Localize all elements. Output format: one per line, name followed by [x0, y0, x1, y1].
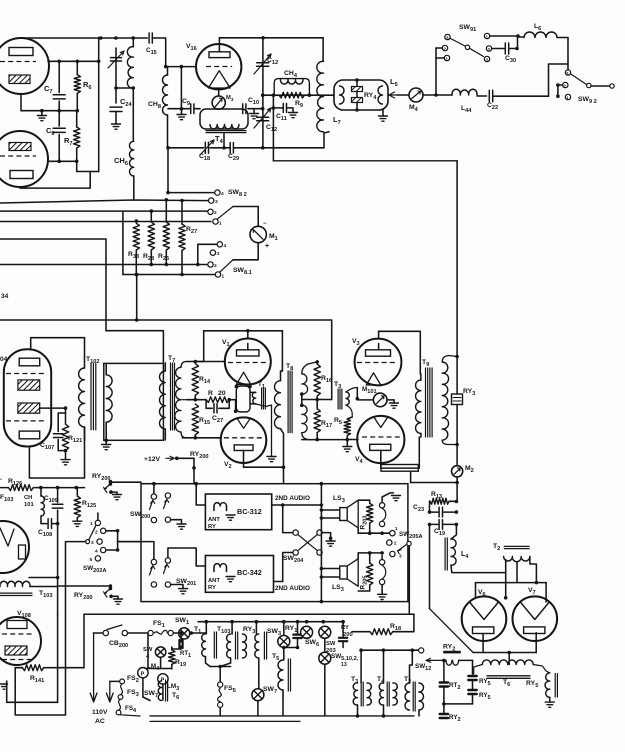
switch SW91 bank1	[445, 34, 450, 39]
switch arm SW91	[451, 39, 467, 47]
resistor R28	[150, 209, 154, 213]
switch SW201	[151, 559, 156, 564]
fuse FS1	[148, 630, 153, 635]
wire	[116, 87, 133, 89]
wire	[321, 576, 339, 578]
wire cathode bar	[473, 652, 536, 654]
coil T6	[482, 660, 533, 665]
fuse FS4	[119, 699, 121, 710]
wire	[381, 437, 420, 468]
capacitor C7	[58, 61, 60, 92]
wire grid V4	[347, 439, 358, 441]
transformer T8 secondary top	[302, 362, 317, 374]
wire	[110, 481, 141, 483]
wire	[549, 38, 569, 97]
switch SW202A	[95, 520, 100, 525]
wire	[198, 244, 217, 264]
ground	[1, 683, 8, 685]
ground	[181, 109, 183, 115]
resistor R18	[352, 631, 370, 633]
capacitor C6	[58, 111, 60, 126]
meter M2	[452, 466, 463, 477]
wire	[147, 633, 149, 669]
wire	[475, 583, 477, 598]
svg-text:1: 1	[219, 221, 222, 227]
node	[227, 398, 231, 402]
wire	[282, 697, 284, 716]
inductor L7	[317, 61, 324, 131]
node	[356, 714, 360, 718]
node	[455, 481, 459, 485]
vibrator RY5a	[468, 675, 476, 677]
lamp LM4	[138, 668, 148, 678]
ground	[378, 593, 387, 595]
node	[434, 93, 438, 97]
core T6	[487, 675, 530, 677]
wire	[180, 67, 182, 109]
wire	[164, 362, 166, 364]
capacitor C11	[273, 107, 283, 109]
wire	[219, 708, 221, 716]
wire RY2 row	[426, 659, 444, 661]
node	[135, 318, 139, 322]
wire	[150, 720, 300, 722]
lamp SW1	[179, 628, 190, 639]
diag wire	[429, 609, 473, 653]
ground	[73, 520, 82, 522]
transformer T9 left	[420, 374, 422, 380]
wire	[118, 542, 154, 560]
wire	[117, 531, 119, 550]
core T2top	[504, 545, 529, 547]
ground	[177, 523, 186, 525]
wire	[21, 37, 147, 39]
node	[97, 60, 101, 64]
node	[356, 397, 360, 401]
node	[39, 486, 43, 490]
node	[56, 522, 60, 526]
arrow 110V b	[109, 681, 111, 700]
wire	[324, 664, 326, 716]
node	[281, 503, 285, 507]
transformer T103 primary	[0, 581, 30, 586]
svg-text:2ND AUDIO: 2ND AUDIO	[275, 495, 310, 502]
wire	[456, 405, 458, 466]
wire	[321, 568, 339, 570]
svg-text:+12V: +12V	[144, 456, 161, 463]
svg-text:R: R	[208, 390, 213, 397]
wire	[301, 394, 303, 405]
switch SW205A	[390, 531, 395, 536]
wire	[143, 668, 172, 670]
wire	[378, 331, 380, 338]
wire	[111, 492, 117, 494]
wire	[423, 94, 452, 96]
coil RY5R	[545, 673, 550, 698]
node	[194, 398, 198, 402]
wire grid	[40, 407, 66, 409]
wire	[57, 615, 59, 703]
switch SW200	[151, 494, 156, 499]
tube V6	[462, 596, 507, 641]
wire	[357, 553, 359, 559]
capacitor C18	[204, 142, 206, 153]
node	[300, 392, 304, 396]
tube V2	[221, 417, 267, 463]
resistor R33	[135, 219, 139, 223]
wire	[283, 505, 293, 533]
node	[166, 191, 170, 195]
wire	[162, 684, 164, 700]
tube V3	[355, 339, 402, 386]
wire	[383, 650, 385, 683]
resistor R9	[279, 92, 305, 98]
wire RY3 vertical	[456, 161, 458, 394]
wire	[187, 361, 196, 363]
ground	[382, 110, 384, 116]
wire	[219, 667, 221, 683]
transformer T102 secondary	[105, 363, 107, 374]
switch SW91 bank2	[484, 33, 489, 38]
box T1	[236, 386, 250, 412]
node	[455, 500, 459, 504]
terminal box	[381, 465, 418, 472]
wire	[493, 95, 549, 97]
meter M101	[357, 399, 373, 401]
capacitor C12a	[257, 62, 269, 64]
node	[57, 160, 61, 164]
svg-text:3: 3	[217, 251, 220, 257]
wire	[397, 94, 409, 96]
capacitor C27	[206, 400, 212, 409]
wire	[233, 207, 258, 227]
jack contacts	[379, 503, 384, 508]
capacitor C108	[47, 519, 49, 529]
inductor CH8	[167, 67, 169, 75]
switch arm SW81	[220, 260, 234, 273]
power box top	[84, 613, 414, 615]
node	[180, 107, 184, 111]
wire	[263, 94, 334, 96]
svg-text:04: 04	[0, 356, 8, 363]
ground	[105, 440, 107, 444]
lamp SW203	[319, 626, 331, 638]
wire	[281, 429, 284, 484]
ground	[226, 514, 235, 516]
ground	[393, 400, 395, 403]
svg-text:101: 101	[24, 502, 34, 508]
node	[76, 60, 80, 64]
relay RT1	[178, 640, 180, 648]
wire	[477, 95, 487, 97]
inductor CH6	[129, 141, 133, 176]
svg-text:2: 2	[214, 263, 217, 269]
core T1b	[213, 632, 215, 658]
node	[57, 60, 61, 64]
wire	[152, 38, 165, 67]
wire	[136, 275, 138, 321]
wire grid bar	[476, 582, 547, 584]
fuse FS2	[120, 679, 125, 684]
wire	[171, 520, 182, 524]
wire	[168, 148, 214, 193]
node	[428, 510, 432, 514]
arrow into L5	[388, 94, 397, 96]
switch SW82	[215, 190, 220, 195]
wire	[379, 331, 421, 374]
svg-text:4: 4	[221, 191, 224, 197]
shield box	[104, 363, 164, 440]
capacitor C10	[242, 104, 244, 114]
relay contact	[109, 584, 113, 588]
relay RY3	[452, 394, 463, 405]
lamp SW51023	[319, 652, 331, 664]
coil RY2 loops	[446, 660, 452, 665]
node	[272, 106, 276, 110]
node	[116, 529, 120, 533]
capacitor C15	[148, 33, 150, 43]
resistor R14	[192, 364, 198, 396]
ground	[114, 598, 123, 600]
transformer T4b	[379, 683, 383, 705]
svg-text:+: +	[265, 243, 269, 250]
wire grid V2	[182, 437, 221, 439]
transformer T5	[283, 647, 285, 660]
wire	[436, 57, 444, 59]
wire	[284, 647, 298, 649]
core T103b	[0, 592, 32, 594]
relay RT1 leads	[179, 631, 183, 635]
svg-text:5: 5	[90, 557, 93, 563]
wire	[322, 533, 330, 539]
wire	[21, 94, 42, 111]
svg-text:13: 13	[341, 662, 347, 668]
wire	[57, 524, 59, 578]
wire	[133, 176, 135, 200]
transformer T3 coil	[346, 392, 349, 405]
wire	[244, 463, 284, 467]
coil T2top	[504, 557, 530, 562]
core T8	[287, 371, 289, 433]
resistor R15	[192, 404, 198, 435]
lamp LM3	[158, 674, 168, 684]
wire	[229, 400, 235, 410]
breaker CB200	[93, 632, 103, 634]
wire	[358, 552, 382, 554]
wire	[106, 549, 118, 551]
wire	[273, 160, 457, 162]
node	[114, 36, 118, 40]
tube V105b	[0, 131, 48, 187]
wire	[128, 632, 148, 634]
switch arm SW202A	[86, 540, 90, 544]
lamp SW6	[301, 626, 313, 638]
switch SW204 cross	[297, 534, 318, 551]
capacitor C30	[504, 43, 506, 54]
wire bus7	[123, 274, 215, 276]
coil ANT RY a	[214, 503, 227, 506]
wire	[196, 484, 205, 505]
svg-text:RY: RY	[208, 585, 216, 591]
core T7	[170, 363, 172, 430]
lamp SW4	[155, 647, 165, 657]
wire	[272, 95, 274, 161]
capacitor C19	[430, 523, 439, 525]
wire	[482, 634, 484, 653]
switch SW92	[565, 70, 570, 75]
svg-text:3: 3	[91, 540, 94, 546]
wire	[281, 331, 283, 371]
wire	[203, 331, 205, 362]
svg-text:ANT: ANT	[208, 517, 220, 523]
capacitor C22	[488, 90, 490, 102]
wire	[444, 703, 473, 705]
wire	[219, 37, 323, 39]
wire	[168, 548, 206, 566]
node	[329, 536, 333, 540]
relay RY4	[356, 80, 358, 110]
inductor L4	[451, 539, 456, 565]
wire	[193, 468, 195, 484]
resistor R121	[65, 408, 67, 424]
ground	[113, 494, 122, 496]
wire	[492, 48, 505, 50]
vibrator RT2	[440, 681, 448, 683]
capacitor C24	[110, 106, 122, 108]
wire	[168, 108, 182, 110]
resistor R203	[358, 500, 370, 503]
speaker LS3 top	[340, 508, 347, 521]
node	[261, 146, 265, 150]
tube V104	[4, 349, 51, 446]
switch arm	[164, 564, 167, 573]
svg-text:CH: CH	[24, 495, 32, 501]
coil L5-right	[378, 86, 383, 104]
wire	[142, 678, 144, 697]
transformer T1b	[205, 622, 207, 634]
node	[131, 36, 135, 40]
wire	[387, 399, 394, 401]
wire	[263, 147, 324, 149]
transformer T6L	[158, 681, 161, 701]
capacitor C107	[58, 413, 65, 432]
relay RY200d	[342, 622, 344, 637]
wire	[508, 653, 510, 665]
tube V16	[196, 44, 241, 89]
coil L5-left	[340, 86, 345, 104]
resistor R125	[76, 488, 78, 496]
node	[64, 406, 68, 410]
node	[194, 436, 198, 440]
ground	[549, 697, 551, 702]
core T103b2	[235, 632, 237, 659]
switch arm	[150, 500, 153, 509]
core T5	[287, 659, 289, 691]
ground	[65, 451, 67, 460]
resistor R126	[0, 487, 8, 489]
wire	[533, 665, 550, 673]
node	[272, 93, 276, 97]
transformer T1 coil	[252, 392, 255, 404]
node	[194, 360, 198, 364]
core T9	[425, 368, 427, 437]
svg-text:2ND AUDIO: 2ND AUDIO	[275, 585, 310, 592]
jack contacts lower	[379, 560, 384, 565]
tube V7	[513, 596, 558, 641]
node	[99, 36, 103, 40]
resistor R27	[180, 199, 184, 203]
node	[152, 482, 156, 486]
wire long vertical	[320, 484, 322, 602]
inductor L6	[518, 36, 524, 38]
wire	[451, 524, 456, 539]
wire bottom bus	[150, 715, 414, 717]
svg-text:1: 1	[222, 274, 225, 280]
speaker LS3 bottom	[340, 566, 347, 579]
relay contact	[109, 480, 113, 484]
wire	[456, 477, 458, 502]
wire	[190, 632, 206, 634]
node	[40, 109, 44, 113]
switch SW81	[217, 242, 222, 247]
svg-text:200: 200	[343, 632, 353, 638]
wire	[490, 35, 518, 37]
node	[104, 439, 108, 443]
wire	[98, 37, 100, 171]
power box left	[83, 614, 85, 668]
wire	[160, 657, 162, 668]
vibrator RY5b	[468, 689, 476, 691]
relay RY1a	[297, 622, 299, 634]
wire	[218, 38, 220, 52]
wire	[505, 560, 507, 598]
meter M1	[250, 226, 266, 242]
svg-text:2: 2	[95, 530, 98, 536]
transformer T7 secondary	[182, 399, 186, 401]
wire	[567, 64, 569, 70]
wire	[58, 585, 111, 587]
wire	[472, 680, 474, 690]
switch arm SW92	[571, 74, 587, 85]
wire bus power	[198, 621, 343, 623]
node	[507, 651, 511, 655]
label R203	[360, 516, 369, 530]
svg-text:4: 4	[95, 549, 98, 555]
core T4	[206, 130, 246, 132]
meter M4	[409, 88, 423, 102]
wire	[357, 528, 359, 533]
wire	[302, 399, 332, 401]
wire	[382, 493, 393, 503]
capacitor C109	[57, 488, 59, 503]
wire	[171, 585, 183, 589]
wire bus1	[0, 200, 208, 203]
wire	[233, 243, 258, 260]
vibrator RY2b	[440, 713, 448, 715]
wire	[516, 563, 518, 583]
svg-text:-: -	[0, 477, 2, 483]
wire bus2	[0, 210, 207, 212]
node	[455, 355, 459, 359]
svg-text:−: −	[263, 221, 267, 227]
wire	[223, 134, 225, 148]
svg-text:RY: RY	[208, 524, 216, 530]
wire row	[361, 649, 418, 651]
node	[261, 93, 265, 97]
svg-text:3: 3	[215, 199, 218, 205]
node	[428, 523, 432, 527]
node	[346, 438, 350, 442]
